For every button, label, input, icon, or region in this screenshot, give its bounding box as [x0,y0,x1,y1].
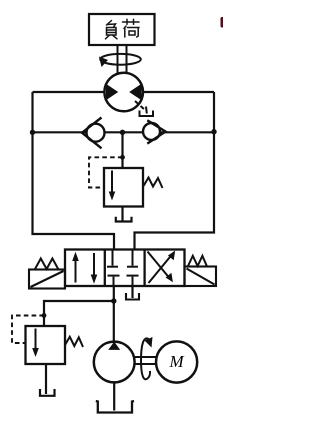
DV1 center position blocked ports [107,251,139,286]
wire: P line valve to pump [113,286,115,342]
wire: RV2 to tank [45,364,47,394]
pilot line RV2 (dashed) [12,316,44,344]
wire: T port to tank [131,286,133,298]
pump P1 [94,342,135,383]
motor drain line (dashed) [135,101,146,111]
kanji 荷 [123,19,140,37]
pump shaft [135,357,157,364]
wire: check-valve rail [33,131,215,133]
DV1 right position cross arrows [148,251,176,283]
load box (負荷) [89,14,155,45]
wire: left riser [33,92,115,250]
spring RV2 [65,337,83,347]
wire: RV1 to tank [121,207,123,221]
check valve V1 [82,118,105,149]
electric motor M1 [156,341,197,382]
relief valve RV1 [104,168,143,207]
wire: to relief valve RV1 [121,132,123,168]
directional valve DV1 body [65,250,185,287]
node: pilot tap RV1 [120,155,125,160]
tank under RV2 [40,389,55,396]
DV1 left spring [35,259,58,270]
DV1 right solenoid [185,267,217,287]
relief valve RV2 [26,326,66,364]
wire: right riser [135,92,215,250]
DV1 right spring [188,256,207,267]
rotation arrow on pump shaft [141,337,153,379]
wire: branch to RV2 [44,301,114,326]
tank under RV1 [116,217,132,222]
drain tank [140,107,154,117]
rotation arrow on load shaft [99,54,141,67]
kanji 負 [106,21,118,39]
node: left rail junction [30,130,35,135]
red margin mark (cropped) [221,17,225,28]
node: pilot tap RV2 [42,313,47,318]
node: relief branch at pump line [111,298,116,303]
hydraulic motor U1 [104,73,143,112]
spring RV1 [144,178,163,189]
wire: motor right line [143,91,214,93]
node: right rail junction [211,129,216,134]
check valve V2 [143,120,166,143]
svg-text:M: M [169,352,185,371]
wire: motor left line [33,91,105,93]
node: relief branch junction [120,130,125,135]
DV1 left solenoid [29,270,65,289]
shaft between load and motor [118,45,127,73]
tank under DV1 [126,293,139,300]
pilot line RV1 (dashed) [89,157,123,187]
DV1 left position arrows [72,252,97,284]
tank under pump [96,401,134,413]
wire: pump to tank [113,382,115,410]
